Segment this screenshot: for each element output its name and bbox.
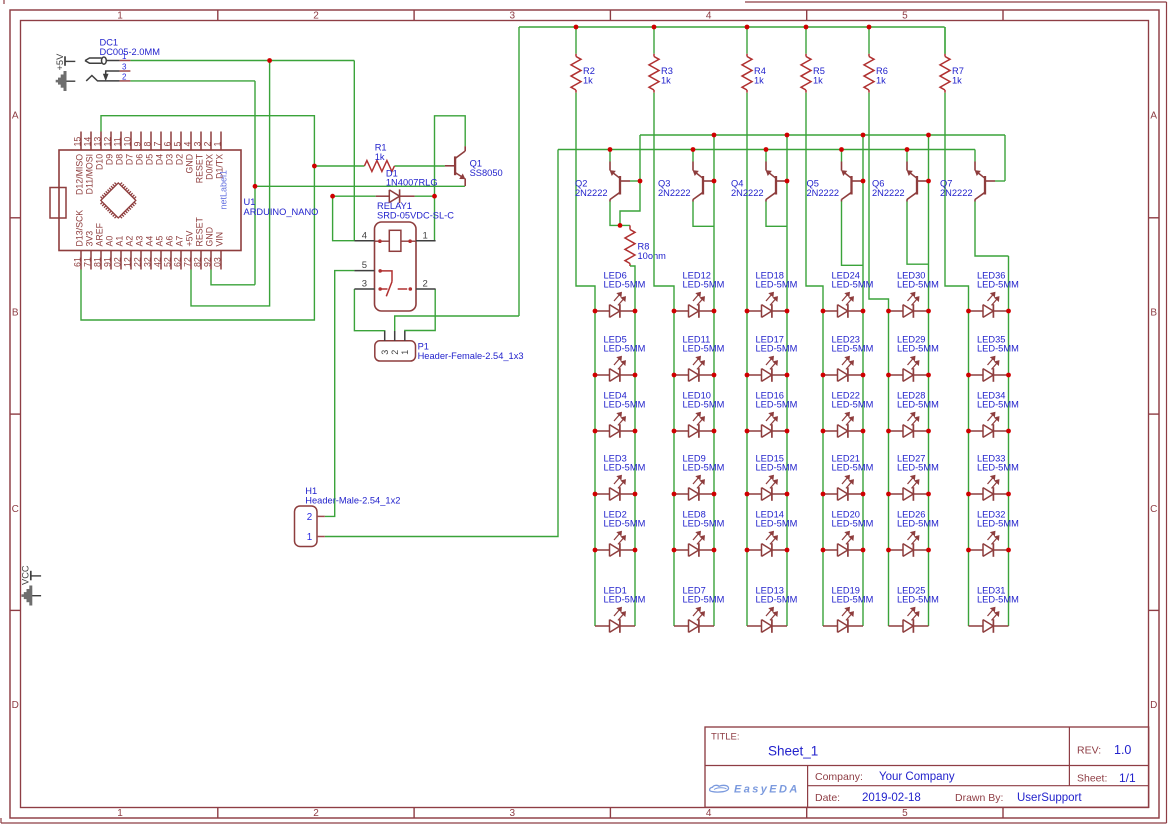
- svg-text:15: 15: [72, 137, 82, 147]
- svg-text:1k: 1k: [813, 75, 823, 85]
- svg-text:GND: GND: [204, 227, 214, 247]
- svg-text:D8: D8: [114, 154, 124, 165]
- svg-text:1: 1: [212, 142, 222, 147]
- svg-text:A1: A1: [114, 236, 124, 247]
- svg-text:2N2222: 2N2222: [658, 188, 691, 198]
- svg-text:2N2222: 2N2222: [575, 188, 608, 198]
- svg-text:71: 71: [82, 257, 92, 267]
- svg-text:LED-5MM: LED-5MM: [604, 463, 646, 473]
- svg-text:10: 10: [122, 137, 132, 147]
- svg-text:LED-5MM: LED-5MM: [683, 280, 725, 290]
- svg-text:LED-5MM: LED-5MM: [604, 519, 646, 529]
- svg-text:2: 2: [313, 11, 319, 22]
- svg-text:AREF: AREF: [94, 222, 104, 246]
- svg-text:2N2222: 2N2222: [731, 188, 764, 198]
- svg-text:6: 6: [162, 142, 172, 147]
- svg-text:Your Company: Your Company: [879, 771, 955, 783]
- svg-text:2: 2: [307, 512, 312, 523]
- svg-text:4: 4: [706, 11, 712, 22]
- svg-text:LED-5MM: LED-5MM: [683, 344, 725, 354]
- svg-text:A4: A4: [144, 236, 154, 247]
- svg-text:LED-5MM: LED-5MM: [977, 595, 1019, 605]
- svg-text:8: 8: [142, 142, 152, 147]
- svg-text:ARDUINO_NANO: ARDUINO_NANO: [244, 207, 319, 217]
- svg-text:LED-5MM: LED-5MM: [604, 344, 646, 354]
- svg-text:+5V: +5V: [184, 230, 194, 246]
- svg-text:92: 92: [202, 257, 212, 267]
- svg-text:+5V: +5V: [55, 53, 65, 71]
- svg-text:Q3: Q3: [658, 178, 670, 188]
- svg-text:RESET: RESET: [194, 153, 204, 183]
- svg-text:1: 1: [122, 52, 127, 61]
- svg-text:3V3: 3V3: [84, 231, 94, 247]
- svg-text:2: 2: [423, 279, 428, 290]
- svg-text:Q6: Q6: [872, 178, 884, 188]
- svg-text:12: 12: [122, 257, 132, 267]
- svg-text:U1: U1: [244, 197, 256, 207]
- svg-text:C: C: [12, 504, 19, 515]
- svg-text:LED-5MM: LED-5MM: [832, 519, 874, 529]
- svg-text:A7: A7: [174, 236, 184, 247]
- svg-text:11: 11: [112, 137, 122, 146]
- svg-text:LED-5MM: LED-5MM: [832, 595, 874, 605]
- svg-text:1k: 1k: [661, 75, 671, 85]
- svg-text:DC005-2.0MM: DC005-2.0MM: [100, 47, 160, 57]
- svg-text:LED-5MM: LED-5MM: [832, 344, 874, 354]
- svg-text:B: B: [1150, 308, 1157, 319]
- svg-text:B: B: [12, 308, 19, 319]
- svg-text:1: 1: [423, 231, 428, 242]
- svg-text:LED-5MM: LED-5MM: [897, 280, 939, 290]
- svg-text:1k: 1k: [583, 75, 593, 85]
- svg-text:RELAY1: RELAY1: [377, 201, 412, 211]
- svg-text:4: 4: [182, 142, 192, 147]
- svg-text:Date:: Date:: [815, 792, 840, 804]
- svg-text:52: 52: [162, 257, 172, 267]
- svg-text:3: 3: [122, 63, 127, 72]
- svg-text:22: 22: [132, 257, 142, 267]
- svg-text:32: 32: [142, 257, 152, 267]
- svg-text:91: 91: [102, 257, 112, 267]
- svg-text:1: 1: [117, 11, 123, 22]
- svg-text:Company:: Company:: [815, 771, 863, 783]
- svg-text:LED-5MM: LED-5MM: [977, 280, 1019, 290]
- svg-text:LED-5MM: LED-5MM: [977, 344, 1019, 354]
- svg-text:3: 3: [510, 11, 516, 22]
- svg-text:1k: 1k: [375, 152, 385, 162]
- svg-text:A3: A3: [134, 236, 144, 247]
- svg-text:D2: D2: [174, 154, 184, 165]
- svg-text:LED-5MM: LED-5MM: [897, 595, 939, 605]
- svg-text:netLabel1: netLabel1: [219, 170, 229, 210]
- svg-text:LED-5MM: LED-5MM: [977, 463, 1019, 473]
- svg-text:D6: D6: [134, 154, 144, 165]
- svg-text:81: 81: [92, 257, 102, 267]
- svg-text:LED-5MM: LED-5MM: [832, 463, 874, 473]
- svg-text:LED-5MM: LED-5MM: [756, 595, 798, 605]
- svg-text:Q4: Q4: [731, 178, 743, 188]
- svg-text:LED-5MM: LED-5MM: [832, 400, 874, 410]
- svg-text:D7: D7: [124, 154, 134, 165]
- svg-text:5: 5: [172, 142, 182, 147]
- svg-text:D5: D5: [144, 154, 154, 165]
- svg-text:1N4007RLG: 1N4007RLG: [386, 178, 438, 188]
- svg-text:Q1: Q1: [470, 159, 482, 169]
- svg-text:42: 42: [152, 257, 162, 267]
- svg-text:LED-5MM: LED-5MM: [604, 595, 646, 605]
- svg-text:2: 2: [390, 350, 400, 355]
- svg-text:D9: D9: [104, 154, 114, 165]
- svg-text:TITLE:: TITLE:: [711, 732, 740, 743]
- svg-text:5: 5: [362, 260, 367, 271]
- svg-text:D13/SCK: D13/SCK: [74, 210, 84, 247]
- svg-text:D11/MOSI: D11/MOSI: [84, 154, 94, 194]
- svg-text:62: 62: [172, 257, 182, 267]
- svg-text:Sheet:: Sheet:: [1077, 773, 1107, 785]
- svg-text:D: D: [12, 700, 19, 711]
- svg-text:14: 14: [82, 137, 92, 147]
- svg-text:D4: D4: [154, 154, 164, 165]
- svg-text:61: 61: [72, 257, 82, 267]
- svg-text:LED-5MM: LED-5MM: [604, 400, 646, 410]
- svg-text:2: 2: [313, 808, 319, 819]
- svg-text:LED-5MM: LED-5MM: [977, 519, 1019, 529]
- svg-text:Q7: Q7: [940, 178, 952, 188]
- svg-text:D3: D3: [164, 154, 174, 165]
- svg-text:EasyEDA: EasyEDA: [734, 784, 800, 796]
- svg-text:5: 5: [902, 11, 908, 22]
- svg-text:LED-5MM: LED-5MM: [832, 280, 874, 290]
- svg-text:1/1: 1/1: [1119, 771, 1136, 785]
- svg-text:Header-Male-2.54_1x2: Header-Male-2.54_1x2: [305, 496, 400, 506]
- svg-text:Q5: Q5: [807, 178, 819, 188]
- svg-text:LED-5MM: LED-5MM: [897, 400, 939, 410]
- svg-text:3: 3: [362, 279, 367, 290]
- svg-text:UserSupport: UserSupport: [1017, 792, 1082, 804]
- svg-text:D10: D10: [94, 154, 104, 170]
- svg-text:72: 72: [182, 257, 192, 267]
- svg-text:A: A: [12, 111, 19, 122]
- svg-text:7: 7: [152, 142, 162, 147]
- svg-text:RESET: RESET: [194, 217, 204, 247]
- svg-text:12: 12: [102, 137, 112, 147]
- svg-text:LED-5MM: LED-5MM: [897, 519, 939, 529]
- svg-text:5: 5: [902, 808, 908, 819]
- svg-text:1k: 1k: [876, 75, 886, 85]
- svg-text:13: 13: [92, 137, 102, 147]
- svg-text:82: 82: [192, 257, 202, 267]
- svg-text:LED-5MM: LED-5MM: [756, 463, 798, 473]
- svg-text:D12/MISO: D12/MISO: [74, 154, 84, 195]
- svg-text:9: 9: [132, 142, 142, 147]
- svg-text:3: 3: [510, 808, 516, 819]
- svg-text:1.0: 1.0: [1114, 743, 1131, 757]
- svg-text:LED-5MM: LED-5MM: [683, 595, 725, 605]
- svg-text:C: C: [1150, 504, 1157, 515]
- svg-text:2019-02-18: 2019-02-18: [862, 792, 921, 804]
- svg-text:Q2: Q2: [575, 178, 587, 188]
- svg-text:LED-5MM: LED-5MM: [756, 519, 798, 529]
- svg-text:A2: A2: [124, 236, 134, 247]
- svg-text:A0: A0: [104, 236, 114, 247]
- svg-text:LED-5MM: LED-5MM: [977, 400, 1019, 410]
- svg-text:2N2222: 2N2222: [872, 188, 905, 198]
- svg-text:GND: GND: [184, 154, 194, 174]
- svg-text:2N2222: 2N2222: [807, 188, 840, 198]
- svg-text:03: 03: [212, 257, 222, 267]
- svg-text:3: 3: [380, 350, 390, 355]
- svg-text:SRD-05VDC-SL-C: SRD-05VDC-SL-C: [377, 210, 454, 220]
- svg-text:2N2222: 2N2222: [940, 188, 973, 198]
- svg-text:3: 3: [192, 142, 202, 147]
- svg-text:1k: 1k: [754, 75, 764, 85]
- svg-text:1: 1: [117, 808, 123, 819]
- svg-text:Header-Female-2.54_1x3: Header-Female-2.54_1x3: [418, 351, 524, 361]
- svg-text:LED-5MM: LED-5MM: [683, 519, 725, 529]
- svg-text:2: 2: [202, 142, 212, 147]
- svg-text:Sheet_1: Sheet_1: [768, 744, 818, 759]
- svg-text:LED-5MM: LED-5MM: [897, 344, 939, 354]
- svg-text:VIN: VIN: [214, 232, 224, 247]
- svg-text:LED-5MM: LED-5MM: [756, 344, 798, 354]
- svg-text:1: 1: [400, 350, 410, 355]
- svg-text:02: 02: [112, 257, 122, 267]
- svg-text:2: 2: [122, 72, 127, 81]
- svg-text:1k: 1k: [952, 75, 962, 85]
- svg-text:D: D: [1150, 700, 1157, 711]
- svg-text:LED-5MM: LED-5MM: [604, 280, 646, 290]
- svg-text:LED-5MM: LED-5MM: [897, 463, 939, 473]
- svg-text:A: A: [1150, 111, 1157, 122]
- svg-text:Drawn By:: Drawn By:: [955, 792, 1003, 804]
- svg-text:REV:: REV:: [1077, 745, 1101, 757]
- svg-text:SS8050: SS8050: [470, 168, 503, 178]
- svg-text:A5: A5: [154, 236, 164, 247]
- svg-text:LED-5MM: LED-5MM: [683, 400, 725, 410]
- svg-text:LED-5MM: LED-5MM: [683, 463, 725, 473]
- svg-text:LED-5MM: LED-5MM: [756, 280, 798, 290]
- svg-text:VCC: VCC: [21, 565, 31, 585]
- svg-text:10ohm: 10ohm: [638, 251, 667, 261]
- svg-text:4: 4: [706, 808, 712, 819]
- svg-text:A6: A6: [164, 236, 174, 247]
- svg-text:D0/RX: D0/RX: [204, 154, 214, 180]
- svg-text:LED-5MM: LED-5MM: [756, 400, 798, 410]
- svg-text:1: 1: [307, 532, 312, 543]
- svg-text:4: 4: [362, 231, 367, 242]
